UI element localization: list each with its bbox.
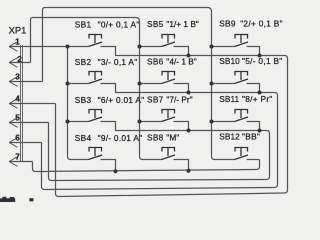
- svg-text:"2/+ 0,1 B": "2/+ 0,1 B": [240, 19, 283, 29]
- svg-text:"BB": "BB": [242, 132, 260, 142]
- svg-text:"6/+ 0.01 A": "6/+ 0.01 A": [98, 95, 145, 105]
- svg-text:4: 4: [15, 95, 20, 104]
- svg-text:"3/- 0,1 A": "3/- 0,1 A": [98, 57, 138, 67]
- svg-text:SB2: SB2: [75, 57, 92, 67]
- svg-text:SB11: SB11: [219, 94, 239, 104]
- svg-text:"5/- 0,1 B": "5/- 0,1 B": [242, 56, 283, 66]
- svg-text:SB10: SB10: [219, 56, 240, 66]
- svg-text:"9/- 0.01 A": "9/- 0.01 A": [98, 133, 143, 143]
- svg-text:SB8: SB8: [147, 132, 164, 142]
- svg-text:SB3: SB3: [75, 95, 92, 105]
- svg-text:"8/+ Pr": "8/+ Pr": [242, 94, 273, 104]
- svg-text:3: 3: [15, 73, 20, 82]
- svg-text:SB7: SB7: [147, 95, 164, 105]
- svg-text:SB6: SB6: [147, 57, 164, 67]
- svg-text:SB1: SB1: [75, 20, 92, 30]
- svg-text:"0/+ 0,1 A": "0/+ 0,1 A": [98, 20, 140, 30]
- svg-text:"7/- Pr": "7/- Pr": [166, 95, 192, 105]
- svg-text:"M": "M": [166, 132, 179, 142]
- svg-text:7: 7: [15, 153, 20, 162]
- svg-text:6: 6: [15, 134, 20, 143]
- svg-text:SB12: SB12: [219, 132, 240, 142]
- svg-text:"1/+ 1 B": "1/+ 1 B": [166, 19, 198, 29]
- svg-text:"4/- 1 B": "4/- 1 B": [166, 57, 196, 67]
- svg-text:1: 1: [15, 38, 20, 47]
- svg-text:SB9: SB9: [219, 19, 236, 29]
- svg-text:2: 2: [17, 55, 22, 64]
- svg-text:SB5: SB5: [147, 19, 164, 29]
- svg-text:XP1: XP1: [9, 25, 27, 36]
- svg-text:5: 5: [15, 114, 20, 123]
- svg-text:SB4: SB4: [75, 133, 92, 143]
